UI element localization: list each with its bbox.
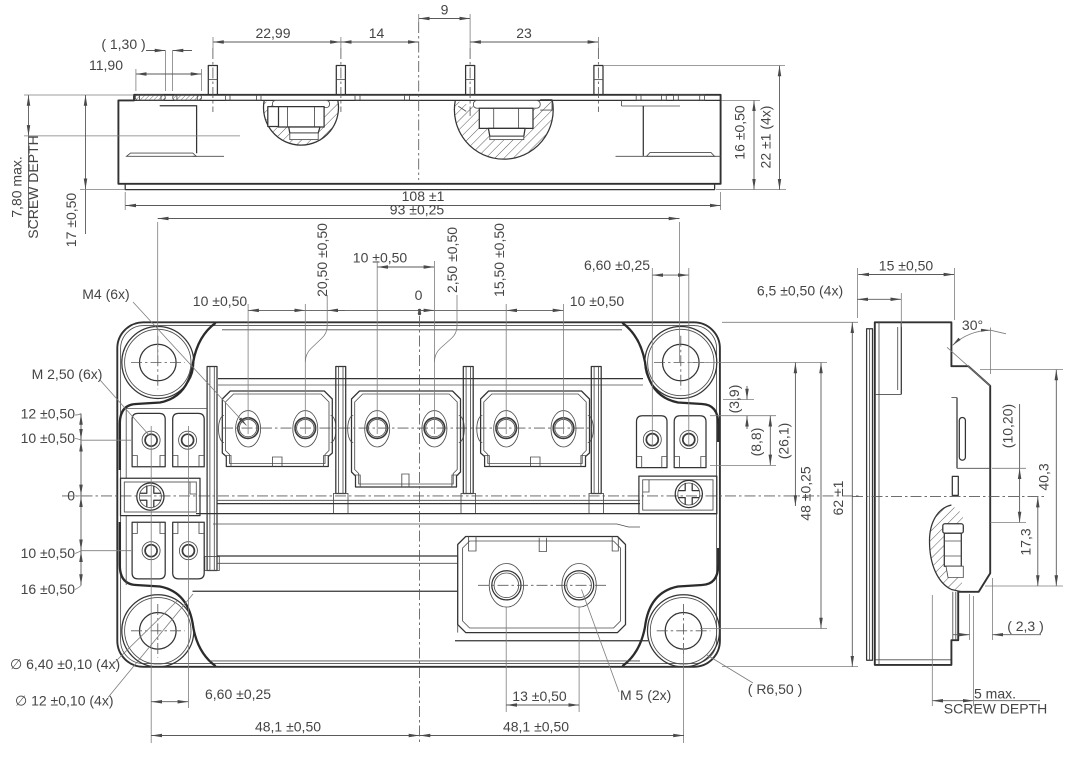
control pin LL1 — [142, 542, 160, 560]
terminal T4 — [422, 411, 447, 447]
clamp arc block B left — [348, 416, 354, 443]
svg-text:62 ±1: 62 ±1 — [830, 480, 846, 515]
pin P3 — [466, 48, 475, 116]
label recess line left — [193, 155, 224, 157]
dim 40,3 — [980, 370, 1063, 587]
svg-text:6,5 ±0,50 (4x): 6,5 ±0,50 (4x) — [757, 283, 843, 299]
lid pad 6 — [674, 95, 705, 100]
dim 48,1 right — [420, 719, 685, 736]
svg-text:14: 14 — [369, 25, 385, 41]
lid pad hatched 2 — [173, 95, 202, 100]
top view module body outline — [118, 95, 720, 184]
control pin UR2 — [680, 431, 698, 449]
svg-text:5 max.: 5 max. — [974, 686, 1016, 702]
clamp arc block A right — [331, 416, 337, 443]
svg-text:23: 23 — [516, 25, 532, 41]
screw blister B2 section — [454, 100, 553, 160]
side right step — [951, 398, 990, 469]
dim (8,8) — [748, 416, 770, 466]
control pin UL2 — [179, 431, 197, 449]
leader M 5 — [582, 590, 672, 704]
dim 17,3 — [1018, 497, 1038, 586]
lid pad 4 — [355, 95, 410, 100]
dim 22,99 — [213, 25, 341, 48]
dim 10 terminals mid — [353, 250, 435, 268]
pin P1 — [208, 48, 217, 112]
zero screw block left — [121, 478, 201, 515]
svg-text:15,50 ±0,50: 15,50 ±0,50 — [491, 223, 507, 297]
bottom ext lines — [151, 426, 683, 743]
M5 pocket — [455, 537, 648, 641]
leader M 2,50 — [32, 366, 149, 435]
label dia 6,40 — [10, 601, 177, 672]
lid pad 5 — [636, 95, 666, 100]
svg-text:SCREW DEPTH: SCREW DEPTH — [25, 135, 41, 238]
dim 7,80 max screw depth — [9, 95, 241, 239]
label 0 top — [415, 287, 423, 315]
svg-text:( 1,30 ): ( 1,30 ) — [101, 36, 145, 52]
control square lower-left 2 — [173, 522, 205, 579]
svg-text:30°: 30° — [962, 317, 983, 333]
front view inner outline — [121, 326, 717, 664]
side body inner line — [878, 322, 880, 665]
svg-text:15 ±0,50: 15 ±0,50 — [879, 258, 934, 274]
deck front edge lines — [218, 379, 643, 385]
zero screw right — [675, 480, 702, 507]
zero screw block right — [639, 476, 717, 514]
dim (26,1) — [776, 363, 796, 507]
control square upper-left 2 — [173, 413, 205, 466]
leader M4 — [82, 286, 246, 426]
svg-text:6,60 ±0,25: 6,60 ±0,25 — [584, 257, 650, 273]
dim (10,20) — [990, 404, 1026, 523]
svg-text:6,60 ±0,25: 6,60 ±0,25 — [205, 686, 271, 702]
left tray lines — [193, 556, 458, 633]
30 degree construction — [947, 328, 1006, 386]
svg-text:12 ±0,50: 12 ±0,50 — [21, 406, 76, 422]
svg-text:( 2,3 ): ( 2,3 ) — [1007, 618, 1044, 634]
zero screw left — [137, 483, 164, 510]
svg-text:∅ 12 ±0,10 (4x): ∅ 12 ±0,10 (4x) — [15, 693, 113, 709]
M5 row centerline — [478, 584, 608, 586]
control pin UR1 — [643, 431, 661, 449]
dim 48,1 left — [151, 719, 419, 736]
svg-text:10 ±0,50: 10 ±0,50 — [193, 293, 248, 309]
control pin LL2 — [179, 542, 197, 560]
dim 5 max screw depth — [932, 595, 1047, 717]
clamp arc block B right — [459, 416, 465, 443]
svg-text:0: 0 — [67, 488, 75, 504]
bend extension diagonals — [305, 295, 457, 362]
ext 93 to holes — [158, 222, 680, 362]
lid pad hatched 1 — [135, 95, 165, 100]
right ext lines — [690, 322, 858, 666]
top view lid bottom line — [134, 99, 721, 101]
clamp arc block A left — [219, 416, 225, 443]
corner boss top-right — [645, 327, 717, 399]
side view body outline — [875, 322, 990, 665]
svg-text:10 ±0,50: 10 ±0,50 — [21, 545, 76, 561]
side screw hole below — [953, 592, 956, 640]
terminal block B — [352, 391, 461, 487]
side centerline — [852, 496, 1044, 498]
svg-text:10 ±0,50: 10 ±0,50 — [353, 250, 408, 266]
terminal T6 — [551, 411, 576, 447]
svg-text:M 5 (2x): M 5 (2x) — [620, 687, 671, 703]
svg-text:13 ±0,50: 13 ±0,50 — [512, 688, 567, 704]
side pin slot capsule — [959, 418, 965, 461]
corner boss bottom-right — [648, 595, 720, 667]
terminal T1 — [236, 411, 261, 447]
module horizontal centerline — [62, 495, 860, 497]
dim 17 — [63, 95, 125, 247]
side screw boss section — [930, 505, 964, 592]
label 20,50 rotated — [314, 223, 330, 297]
terminal T3 — [365, 411, 390, 447]
bottom inner band line — [210, 660, 640, 662]
M5 terminal left — [489, 564, 523, 608]
svg-text:17 ±0,50: 17 ±0,50 — [63, 193, 79, 248]
lid pad 3 — [226, 95, 262, 100]
dim 23 — [470, 25, 598, 48]
dim 13 — [506, 688, 579, 705]
svg-text:22 ±1 (4x): 22 ±1 (4x) — [758, 106, 774, 169]
dim 62 — [830, 322, 852, 666]
separator bar 1 — [205, 367, 220, 571]
separator bar 3 — [461, 367, 476, 514]
svg-text:(26,1): (26,1) — [776, 423, 792, 460]
svg-text:48 ±0,25: 48 ±0,25 — [798, 466, 814, 521]
top inner deck line — [222, 329, 622, 331]
label recess left — [127, 153, 197, 156]
terminal T2 — [293, 411, 318, 447]
svg-text:93 ±0,25: 93 ±0,25 — [390, 202, 445, 218]
svg-text:∅ 6,40 ±0,10 (4x): ∅ 6,40 ±0,10 (4x) — [10, 656, 120, 672]
label recess line right — [616, 155, 721, 157]
extension lines terminals — [248, 261, 689, 743]
pocket wall top-right — [622, 323, 718, 442]
pocket wall top-left — [120, 323, 216, 470]
label recess right — [647, 153, 715, 157]
control square lower-left 1 — [132, 522, 165, 579]
terminal block A — [222, 391, 332, 467]
dim (1,30) — [101, 36, 192, 91]
corner boss bottom-left — [122, 595, 194, 667]
body step left — [160, 106, 197, 153]
svg-text:40,3: 40,3 — [1036, 463, 1052, 490]
module centerline top view — [418, 22, 420, 180]
separator bar 4 — [589, 367, 604, 514]
dim 9 — [419, 2, 470, 49]
svg-text:48,1 ±0,50: 48,1 ±0,50 — [255, 719, 321, 735]
dim 108 — [125, 188, 720, 210]
separator bar 2 — [334, 367, 349, 514]
svg-text:7,80 max.: 7,80 max. — [9, 156, 25, 217]
dim 11,90 — [89, 57, 202, 91]
svg-text:M4 (6x): M4 (6x) — [82, 286, 129, 302]
terminal T5 — [494, 411, 519, 447]
dim 10 terminals right — [506, 293, 624, 310]
svg-text:(10,20): (10,20) — [1000, 404, 1016, 448]
svg-text:11,90: 11,90 — [89, 57, 123, 73]
pocket wall bottom-left — [120, 522, 216, 666]
dim 15 side — [857, 258, 954, 321]
dim (2,3) — [953, 578, 1044, 640]
svg-text:17,3: 17,3 — [1018, 528, 1034, 555]
top view baseplate — [125, 184, 714, 190]
label 2,50 rotated — [444, 227, 460, 293]
svg-text:22,99: 22,99 — [255, 25, 290, 41]
svg-text:48,1 ±0,50: 48,1 ±0,50 — [503, 719, 569, 735]
front view outer outline — [117, 322, 720, 667]
left chain dimension — [75, 414, 131, 590]
svg-text:10 ±0,50: 10 ±0,50 — [21, 430, 76, 446]
pin P2 — [336, 48, 345, 112]
terminal block C — [481, 391, 590, 467]
central rail lines — [196, 500, 717, 527]
svg-text:0: 0 — [415, 287, 423, 303]
clamp arc block C right — [588, 416, 594, 443]
control square upper-left 1 — [132, 413, 165, 466]
dim 14 — [341, 25, 419, 42]
corner boss top-left — [122, 327, 194, 399]
svg-text:( R6,50 ): ( R6,50 ) — [748, 681, 802, 697]
leader R6,50 — [707, 655, 802, 697]
side small slot — [952, 476, 958, 495]
dim 10 terminals left — [193, 293, 306, 310]
pin P4 — [594, 48, 603, 112]
pocket wall bottom-right — [622, 548, 718, 666]
screw blister B1 section — [264, 100, 339, 145]
dim 93 — [158, 202, 680, 219]
dim 22 (4x) — [604, 66, 785, 190]
svg-text:16 ±0,50: 16 ±0,50 — [732, 105, 748, 160]
label 15,50 rotated — [491, 223, 507, 297]
clamp arc block C left — [477, 416, 482, 443]
svg-text:2,50 ±0,50: 2,50 ±0,50 — [444, 227, 460, 293]
lid tick — [621, 100, 623, 106]
dim 6,5 side — [757, 283, 901, 328]
dim 6,60 control upper — [584, 257, 689, 275]
left control pocket lines — [126, 409, 207, 586]
chain dim line terminals — [305, 309, 506, 312]
svg-text:(8,8): (8,8) — [748, 428, 764, 457]
svg-text:9: 9 — [441, 2, 449, 18]
control pin UL1 — [142, 431, 160, 449]
label dia 12 — [15, 594, 193, 709]
terminal row centerline — [222, 427, 592, 429]
dim (3,9) — [726, 385, 747, 429]
side groove — [875, 322, 901, 394]
control square upper-right 2 — [674, 416, 706, 468]
dim 48 — [798, 363, 822, 629]
dim 6,60 bottom — [151, 686, 271, 702]
svg-text:10 ±0,50: 10 ±0,50 — [570, 293, 625, 309]
svg-text:M 2,50 (6x): M 2,50 (6x) — [32, 366, 103, 382]
svg-text:SCREW DEPTH: SCREW DEPTH — [944, 701, 1047, 717]
dim 16 — [716, 100, 786, 189]
side body inner bottom line — [875, 659, 952, 661]
svg-text:16 ±0,50: 16 ±0,50 — [21, 581, 76, 597]
svg-text:20,50 ±0,50: 20,50 ±0,50 — [314, 223, 330, 297]
svg-text:(3,9): (3,9) — [726, 385, 742, 414]
side view baseplate — [867, 329, 873, 661]
left labels — [21, 406, 76, 598]
M5 terminal right — [562, 564, 596, 608]
control square upper-right 1 — [637, 416, 668, 468]
body step right — [622, 106, 681, 156]
